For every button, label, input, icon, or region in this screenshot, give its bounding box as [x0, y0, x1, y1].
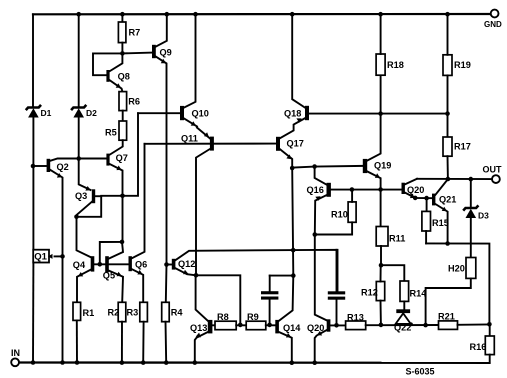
svg-text:Q21: Q21: [439, 195, 456, 205]
svg-text:Q5: Q5: [103, 271, 115, 281]
svg-text:D2: D2: [86, 108, 97, 118]
svg-text:Q11: Q11: [181, 134, 198, 144]
svg-text:Q16: Q16: [307, 185, 324, 195]
svg-text:Q20: Q20: [407, 185, 424, 195]
svg-text:R8: R8: [217, 312, 229, 322]
svg-text:R11: R11: [389, 233, 405, 243]
svg-text:Q12: Q12: [178, 259, 195, 269]
svg-text:R1: R1: [83, 308, 95, 318]
svg-text:R7: R7: [129, 27, 141, 37]
svg-text:Q17: Q17: [287, 139, 304, 149]
svg-text:R6: R6: [128, 97, 140, 107]
svg-text:Q14: Q14: [283, 323, 301, 333]
svg-text:R17: R17: [454, 141, 471, 151]
svg-text:Q22: Q22: [394, 322, 411, 332]
svg-text:D1: D1: [41, 108, 52, 118]
svg-text:Q4: Q4: [73, 260, 86, 270]
svg-text:R16: R16: [470, 342, 487, 352]
svg-text:R14: R14: [410, 288, 428, 298]
svg-text:Q10: Q10: [192, 108, 209, 118]
svg-text:R10: R10: [331, 209, 348, 219]
svg-text:Q2: Q2: [57, 162, 69, 172]
svg-text:R21: R21: [438, 311, 455, 321]
svg-text:D3: D3: [478, 210, 489, 220]
svg-text:R15: R15: [432, 218, 449, 228]
svg-text:Q18: Q18: [284, 108, 301, 118]
svg-text:Q9: Q9: [160, 47, 172, 57]
svg-text:Q6: Q6: [135, 259, 147, 269]
svg-text:GND: GND: [484, 20, 502, 29]
svg-text:Q13: Q13: [190, 323, 207, 333]
svg-text:Q3: Q3: [75, 191, 87, 201]
svg-text:R5: R5: [105, 128, 117, 138]
svg-text:Q20: Q20: [307, 323, 324, 333]
svg-text:OUT: OUT: [483, 164, 503, 174]
svg-text:Q1: Q1: [34, 252, 47, 263]
svg-text:R4: R4: [171, 307, 184, 317]
svg-text:R13: R13: [347, 312, 364, 322]
svg-text:Q7: Q7: [116, 153, 128, 163]
svg-text:R19: R19: [454, 60, 471, 70]
svg-text:IN: IN: [11, 348, 20, 358]
svg-text:Q8: Q8: [118, 71, 130, 81]
svg-text:H20: H20: [448, 263, 465, 273]
svg-text:R3: R3: [127, 307, 139, 317]
svg-text:R2: R2: [108, 307, 120, 317]
svg-text:Q19: Q19: [374, 160, 391, 170]
svg-text:S-6035: S-6035: [406, 366, 435, 376]
svg-text:R12: R12: [361, 287, 378, 297]
svg-text:R9: R9: [247, 312, 259, 322]
svg-text:R18: R18: [387, 60, 404, 70]
